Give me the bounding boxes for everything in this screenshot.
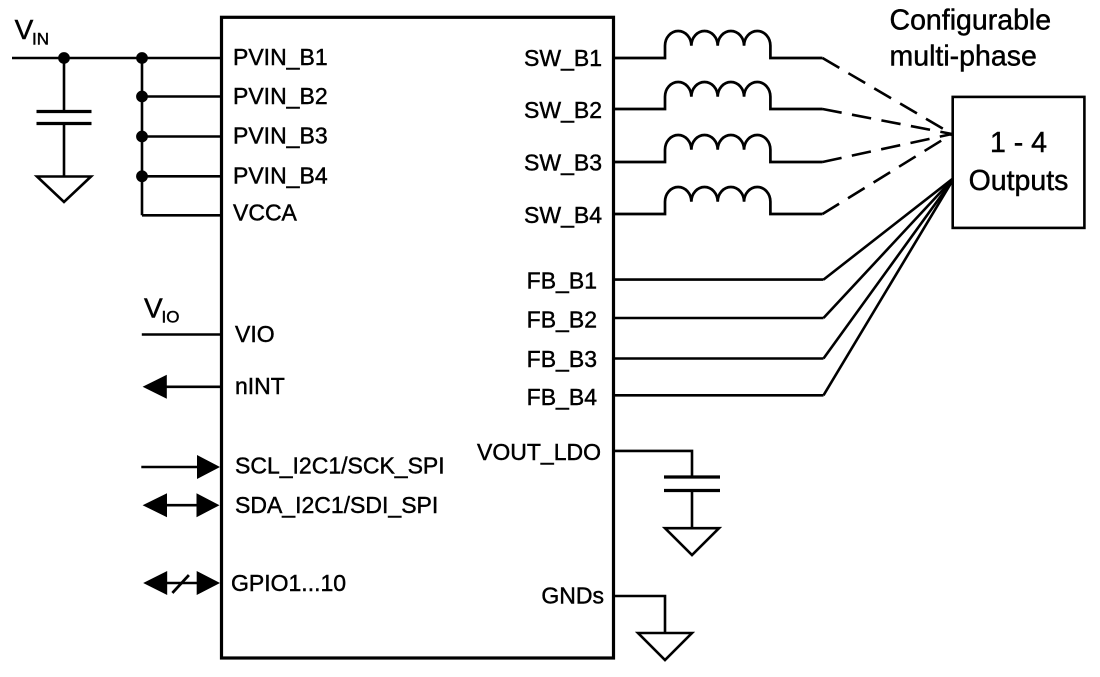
svg-text:IO: IO bbox=[162, 308, 180, 327]
svg-text:SW_B2: SW_B2 bbox=[524, 97, 602, 123]
svg-text:SW_B3: SW_B3 bbox=[524, 150, 602, 176]
svg-text:nINT: nINT bbox=[235, 373, 285, 399]
svg-text:1 - 4: 1 - 4 bbox=[990, 127, 1047, 159]
svg-text:SW_B1: SW_B1 bbox=[524, 45, 602, 71]
svg-text:PVIN_B4: PVIN_B4 bbox=[233, 162, 328, 188]
svg-text:SDA_I2C1/SDI_SPI: SDA_I2C1/SDI_SPI bbox=[235, 492, 438, 518]
svg-text:FB_B1: FB_B1 bbox=[527, 268, 597, 294]
svg-text:SCL_I2C1/SCK_SPI: SCL_I2C1/SCK_SPI bbox=[235, 453, 445, 479]
svg-text:SW_B4: SW_B4 bbox=[524, 202, 602, 228]
svg-text:VCCA: VCCA bbox=[233, 200, 298, 226]
svg-text:GNDs: GNDs bbox=[541, 583, 604, 609]
svg-text:PVIN_B3: PVIN_B3 bbox=[233, 123, 328, 149]
svg-text:IN: IN bbox=[32, 30, 49, 49]
svg-text:Outputs: Outputs bbox=[969, 165, 1069, 197]
svg-text:VIO: VIO bbox=[235, 321, 275, 347]
svg-text:FB_B3: FB_B3 bbox=[527, 346, 597, 372]
svg-text:V: V bbox=[144, 292, 163, 323]
svg-text:PVIN_B1: PVIN_B1 bbox=[233, 44, 328, 70]
svg-text:VOUT_LDO: VOUT_LDO bbox=[477, 439, 601, 465]
svg-text:FB_B2: FB_B2 bbox=[527, 306, 597, 332]
svg-text:V: V bbox=[15, 14, 34, 45]
svg-text:PVIN_B2: PVIN_B2 bbox=[233, 83, 328, 109]
svg-text:GPIO1...10: GPIO1...10 bbox=[231, 570, 346, 596]
svg-text:Configurable: Configurable bbox=[890, 5, 1052, 37]
svg-text:FB_B4: FB_B4 bbox=[527, 384, 598, 410]
svg-text:multi-phase: multi-phase bbox=[890, 41, 1037, 73]
